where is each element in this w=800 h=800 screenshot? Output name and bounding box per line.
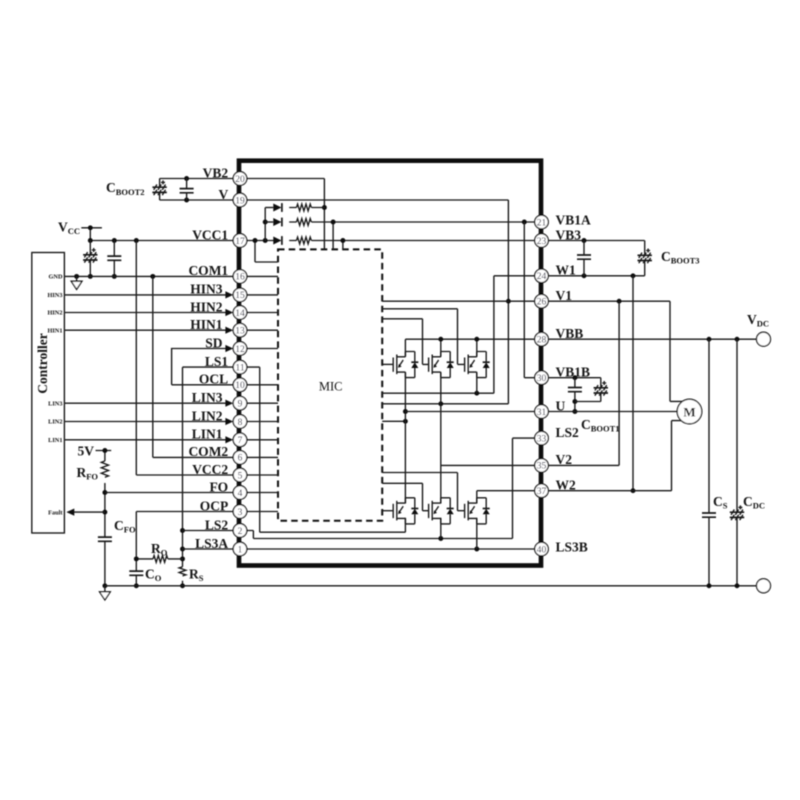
wire gate row high-side FET2	[382, 319, 428, 365]
wire VB1B row external	[548, 377, 601, 379]
pin 17 VCC1	[192, 227, 247, 247]
wire VB1A-VB1B tie vertical	[524, 222, 535, 378]
svg-text:HIN1: HIN1	[190, 317, 223, 332]
wire VCC2 internal	[247, 474, 278, 476]
pin 33 LS2	[535, 425, 579, 445]
svg-text:V1: V1	[556, 288, 573, 303]
capacitor CFO	[98, 537, 112, 541]
svg-text:OCP: OCP	[200, 498, 229, 513]
capacitor CBOOT1 electrolytic	[575, 378, 601, 402]
wire V node line	[382, 403, 508, 405]
wire V row external	[160, 199, 234, 201]
wire VB3 row external	[548, 240, 645, 242]
terminal bottom return	[757, 579, 771, 593]
wire pin19 internal V net	[247, 200, 509, 404]
wire LS1 row external	[183, 366, 234, 368]
svg-text:CBOOT3: CBOOT3	[661, 249, 700, 266]
svg-text:FO: FO	[209, 479, 228, 494]
pin 5 VCC2	[192, 462, 247, 482]
pin 4 FO	[209, 479, 246, 499]
pin 19 V	[218, 187, 246, 207]
wire pin17 internal with MIC hook	[247, 241, 278, 263]
svg-text:CS: CS	[713, 494, 728, 511]
wire RO row	[136, 558, 182, 560]
svg-text:VDC: VDC	[747, 312, 769, 329]
wire gate lead high-side FET1	[382, 363, 393, 365]
svg-text:GND: GND	[49, 274, 63, 281]
ground symbol bottom rail	[104, 586, 106, 592]
wire low FET2 source to LS2	[440, 518, 442, 539]
svg-text:HIN3: HIN3	[47, 292, 62, 299]
wire COM2 vertical and row	[153, 276, 234, 457]
pin 28 VBB	[535, 326, 584, 346]
wire LS2 right vertical to pin33	[513, 438, 536, 538]
pin 13 HIN1	[190, 317, 247, 337]
wire U row external to motor	[548, 411, 678, 413]
transistor Q5 low-side V	[429, 498, 454, 524]
wire VB2 row external	[160, 178, 234, 180]
svg-text:13: 13	[235, 327, 245, 337]
svg-text:LS2: LS2	[205, 517, 229, 532]
svg-text:21: 21	[537, 218, 547, 228]
svg-text:Controller: Controller	[35, 333, 50, 394]
capacitor CBOOT3 ceramic	[583, 241, 585, 276]
pin 14 HIN2	[190, 299, 247, 319]
svg-text:35: 35	[537, 462, 547, 472]
wire W1 vertical and internal row	[494, 276, 536, 393]
wire LIN2 row	[64, 421, 227, 423]
wire gate row low-side FET2	[382, 483, 428, 510]
svg-text:LIN3: LIN3	[192, 390, 223, 405]
svg-text:CDC: CDC	[743, 494, 765, 511]
wire SD internal	[247, 348, 278, 350]
wire VCC1 row	[90, 240, 233, 242]
svg-text:16: 16	[235, 273, 245, 283]
wire VBB rail internal with FET drains	[405, 339, 535, 357]
pin 11 LS1	[205, 354, 247, 374]
node 5V stub	[96, 451, 112, 462]
wire W1-W2 tie vertical	[632, 276, 634, 491]
wire HIN3 internal	[247, 294, 278, 296]
svg-text:LIN2: LIN2	[192, 408, 223, 423]
capacitor CO	[129, 571, 143, 575]
svg-text:MIC: MIC	[319, 379, 343, 393]
svg-text:CFO: CFO	[114, 518, 136, 535]
ground symbol near controller	[76, 276, 78, 281]
wire VCC2 vertical and row	[136, 241, 233, 476]
transistor Q3 high-side W	[465, 352, 490, 378]
wire W2 row internal	[477, 490, 536, 492]
wire gate row high-side FET3	[382, 309, 464, 365]
wire ground rail bottom	[105, 585, 757, 587]
resistor RS	[179, 567, 186, 576]
svg-text:VCC2: VCC2	[192, 462, 228, 477]
pin 7 LIN1	[192, 427, 247, 447]
svg-text:20: 20	[235, 175, 245, 185]
terminal VDC	[757, 332, 771, 346]
resistor bootstrap R1	[289, 207, 324, 209]
wire pin20 internal to bootstrap row1	[247, 179, 325, 250]
svg-text:1: 1	[238, 545, 243, 555]
pin 1 LS3A	[195, 536, 247, 556]
wire OCL internal	[247, 384, 278, 386]
wire FO internal	[247, 492, 278, 494]
wire LS2 internal hook to low FET2 source	[247, 531, 513, 539]
svg-text:8: 8	[238, 418, 243, 428]
wire SD-OCL loop	[172, 349, 234, 385]
svg-text:26: 26	[537, 298, 547, 308]
svg-text:VB1B: VB1B	[556, 365, 591, 380]
motor M	[677, 399, 702, 424]
svg-text:VCC: VCC	[58, 220, 80, 237]
wire LIN1 internal	[247, 439, 278, 441]
svg-text:COM2: COM2	[188, 444, 228, 459]
pin 23 VB3	[535, 227, 582, 247]
wire U row internal	[405, 411, 535, 413]
pin 15 HIN3	[190, 282, 247, 302]
svg-text:14: 14	[235, 309, 245, 319]
svg-text:Fault: Fault	[48, 509, 63, 516]
svg-text:4: 4	[238, 489, 243, 499]
svg-text:CBOOT2: CBOOT2	[106, 180, 145, 197]
wire LS3A-LS3B row	[247, 548, 536, 550]
svg-text:V: V	[218, 187, 228, 202]
wire V2 row internal	[441, 464, 536, 466]
wire LIN3 internal	[247, 402, 278, 404]
svg-text:10: 10	[235, 381, 245, 391]
svg-text:2: 2	[238, 527, 243, 537]
svg-text:HIN2: HIN2	[190, 299, 223, 314]
svg-text:CO: CO	[145, 567, 162, 584]
svg-text:V2: V2	[556, 452, 573, 467]
capacitor CBOOT3 electrolytic	[644, 241, 646, 276]
pin 3 OCP	[200, 498, 247, 518]
svg-text:W1: W1	[556, 263, 577, 278]
IC package outline (thick rectangle)	[239, 161, 541, 566]
pin 20 VB2	[203, 165, 247, 185]
resistor RO	[153, 556, 168, 563]
svg-text:VB2: VB2	[203, 165, 229, 180]
pin 30 VB1B	[535, 365, 590, 385]
svg-text:LS1: LS1	[205, 354, 229, 369]
svg-text:3: 3	[238, 508, 243, 518]
svg-text:19: 19	[235, 196, 245, 206]
node VCC supply stub	[81, 228, 102, 241]
svg-text:23: 23	[537, 237, 547, 247]
transistor Q4 low-side U	[393, 498, 418, 524]
wire V1-V2 tie vertical	[618, 301, 620, 465]
svg-text:24: 24	[537, 272, 547, 282]
wire W phase verticals	[476, 372, 478, 503]
svg-text:28: 28	[537, 336, 547, 346]
svg-text:VCC1: VCC1	[192, 227, 228, 242]
wire bootstrap left vertical	[264, 208, 266, 241]
capacitor VCC ceramic	[113, 241, 115, 277]
pin 40 LS3B	[535, 540, 588, 556]
svg-text:37: 37	[537, 487, 547, 497]
diode bootstrap D3	[273, 236, 282, 245]
wire HIN2 row	[64, 312, 227, 314]
pin 21 VB1A	[535, 213, 591, 229]
wire U node MIC stub	[382, 420, 405, 422]
wire VB1A row internal	[333, 222, 535, 249]
wire LIN1 row	[64, 439, 227, 441]
svg-text:VBB: VBB	[556, 326, 584, 341]
resistor bootstrap R2	[289, 221, 333, 223]
svg-text:SD: SD	[205, 335, 223, 350]
svg-text:CBOOT1: CBOOT1	[581, 417, 620, 434]
pin 10 OCL	[199, 372, 247, 392]
wire COM1/GND row	[64, 275, 233, 277]
svg-text:HIN2: HIN2	[47, 310, 62, 317]
wire gate row low-side FET3	[382, 473, 464, 511]
wire COM1 internal	[247, 275, 278, 277]
transistor Q2 high-side V	[429, 352, 454, 378]
svg-text:LIN3: LIN3	[48, 400, 62, 407]
svg-text:33: 33	[537, 434, 547, 444]
svg-text:40: 40	[537, 545, 547, 555]
svg-text:HIN1: HIN1	[47, 327, 62, 334]
svg-text:31: 31	[537, 408, 547, 418]
svg-text:HIN3: HIN3	[190, 282, 223, 297]
pin 12 SD	[205, 335, 247, 355]
svg-text:LIN2: LIN2	[48, 419, 62, 426]
pin 8 LIN2	[192, 408, 247, 428]
svg-text:RS: RS	[189, 567, 204, 584]
svg-text:12: 12	[235, 345, 245, 355]
svg-text:U: U	[556, 398, 566, 413]
svg-text:W2: W2	[556, 478, 577, 493]
svg-text:LIN1: LIN1	[48, 437, 62, 444]
wire V phase vertical	[440, 372, 442, 503]
wire W2 row external to motor	[548, 421, 682, 491]
wire V2 row external	[548, 464, 619, 466]
wire gate lead low-side FET1	[382, 510, 393, 512]
svg-text:11: 11	[235, 363, 244, 373]
pin 6 COM2	[188, 444, 246, 464]
pin 2 LS2	[205, 517, 247, 537]
wire FO row	[105, 492, 234, 494]
pin 31 U	[535, 398, 566, 418]
svg-text:5V: 5V	[78, 444, 95, 459]
svg-text:7: 7	[238, 436, 243, 446]
svg-text:6: 6	[238, 454, 243, 464]
wire LS2 row external	[183, 530, 234, 532]
wire OCP row and vertical	[136, 512, 233, 586]
wire W1 row external	[548, 275, 645, 277]
pin 35 V2	[535, 452, 573, 472]
svg-text:RO: RO	[151, 541, 168, 558]
svg-text:LS2: LS2	[556, 425, 580, 440]
wire COM2 internal	[247, 456, 278, 458]
wire V1 row external to motor	[548, 301, 683, 401]
wire HIN2 internal	[247, 312, 278, 314]
capacitor CBOOT1 ceramic	[574, 378, 576, 412]
pin 37 W2	[535, 478, 576, 498]
pin 16 COM1	[188, 263, 246, 283]
svg-text:RFO: RFO	[76, 465, 98, 482]
capacitor VCC electrolytic	[89, 241, 91, 277]
resistor bootstrap R3	[289, 240, 535, 242]
pin 24 W1	[535, 263, 576, 283]
wire VB3 row stub into MIC	[342, 241, 344, 250]
diode bootstrap D2	[265, 221, 273, 223]
wire HIN1 row	[64, 329, 227, 331]
wire FO node vertical	[104, 483, 106, 586]
wire OCP internal	[247, 511, 278, 513]
controller box	[32, 253, 65, 534]
wire LIN3 row	[64, 402, 227, 404]
wire LS3A row external	[183, 548, 234, 550]
resistor RFO	[101, 461, 108, 477]
transistor Q6 low-side W	[465, 498, 490, 524]
pin 9 LIN3	[192, 390, 247, 410]
svg-text:M: M	[683, 404, 695, 419]
wire U phase vertical	[404, 372, 406, 503]
wire HIN1 internal	[247, 329, 278, 331]
capacitor CBOOT2 ceramic	[186, 179, 188, 201]
wire low FET1 source to LS1	[404, 518, 406, 532]
wire VBB row external	[548, 338, 757, 340]
svg-text:LIN1: LIN1	[192, 427, 223, 442]
capacitor CBOOT2 electrolytic	[159, 179, 161, 201]
transistor Q1 high-side U	[393, 352, 418, 378]
wire Fault row with arrow	[68, 511, 105, 513]
wire HIN3 row	[64, 294, 227, 296]
pin 26 V1	[535, 288, 573, 308]
wire LIN2 internal	[247, 421, 278, 423]
wire low FET3 source to LS3	[476, 518, 478, 549]
svg-text:15: 15	[235, 291, 245, 301]
svg-text:VB1A: VB1A	[556, 213, 592, 228]
capacitor CDC branch	[736, 339, 738, 586]
wire V1 row internal from MIC	[382, 300, 535, 302]
MIC block (dashed box)	[278, 249, 382, 520]
diode bootstrap D1	[265, 207, 273, 209]
wire LS1 sense vertical	[182, 367, 184, 586]
svg-text:17: 17	[235, 237, 245, 247]
svg-text:5: 5	[238, 471, 243, 481]
svg-text:VB3: VB3	[556, 227, 582, 242]
wire LS1 internal to low FET1 source	[247, 367, 406, 532]
svg-text:OCL: OCL	[199, 372, 228, 387]
wire W node line	[382, 392, 494, 394]
capacitor CS branch	[708, 339, 710, 586]
svg-text:30: 30	[537, 374, 547, 384]
svg-text:LS3B: LS3B	[556, 540, 588, 555]
svg-text:COM1: COM1	[188, 263, 228, 278]
svg-text:9: 9	[238, 400, 243, 410]
svg-text:LS3A: LS3A	[195, 536, 228, 551]
